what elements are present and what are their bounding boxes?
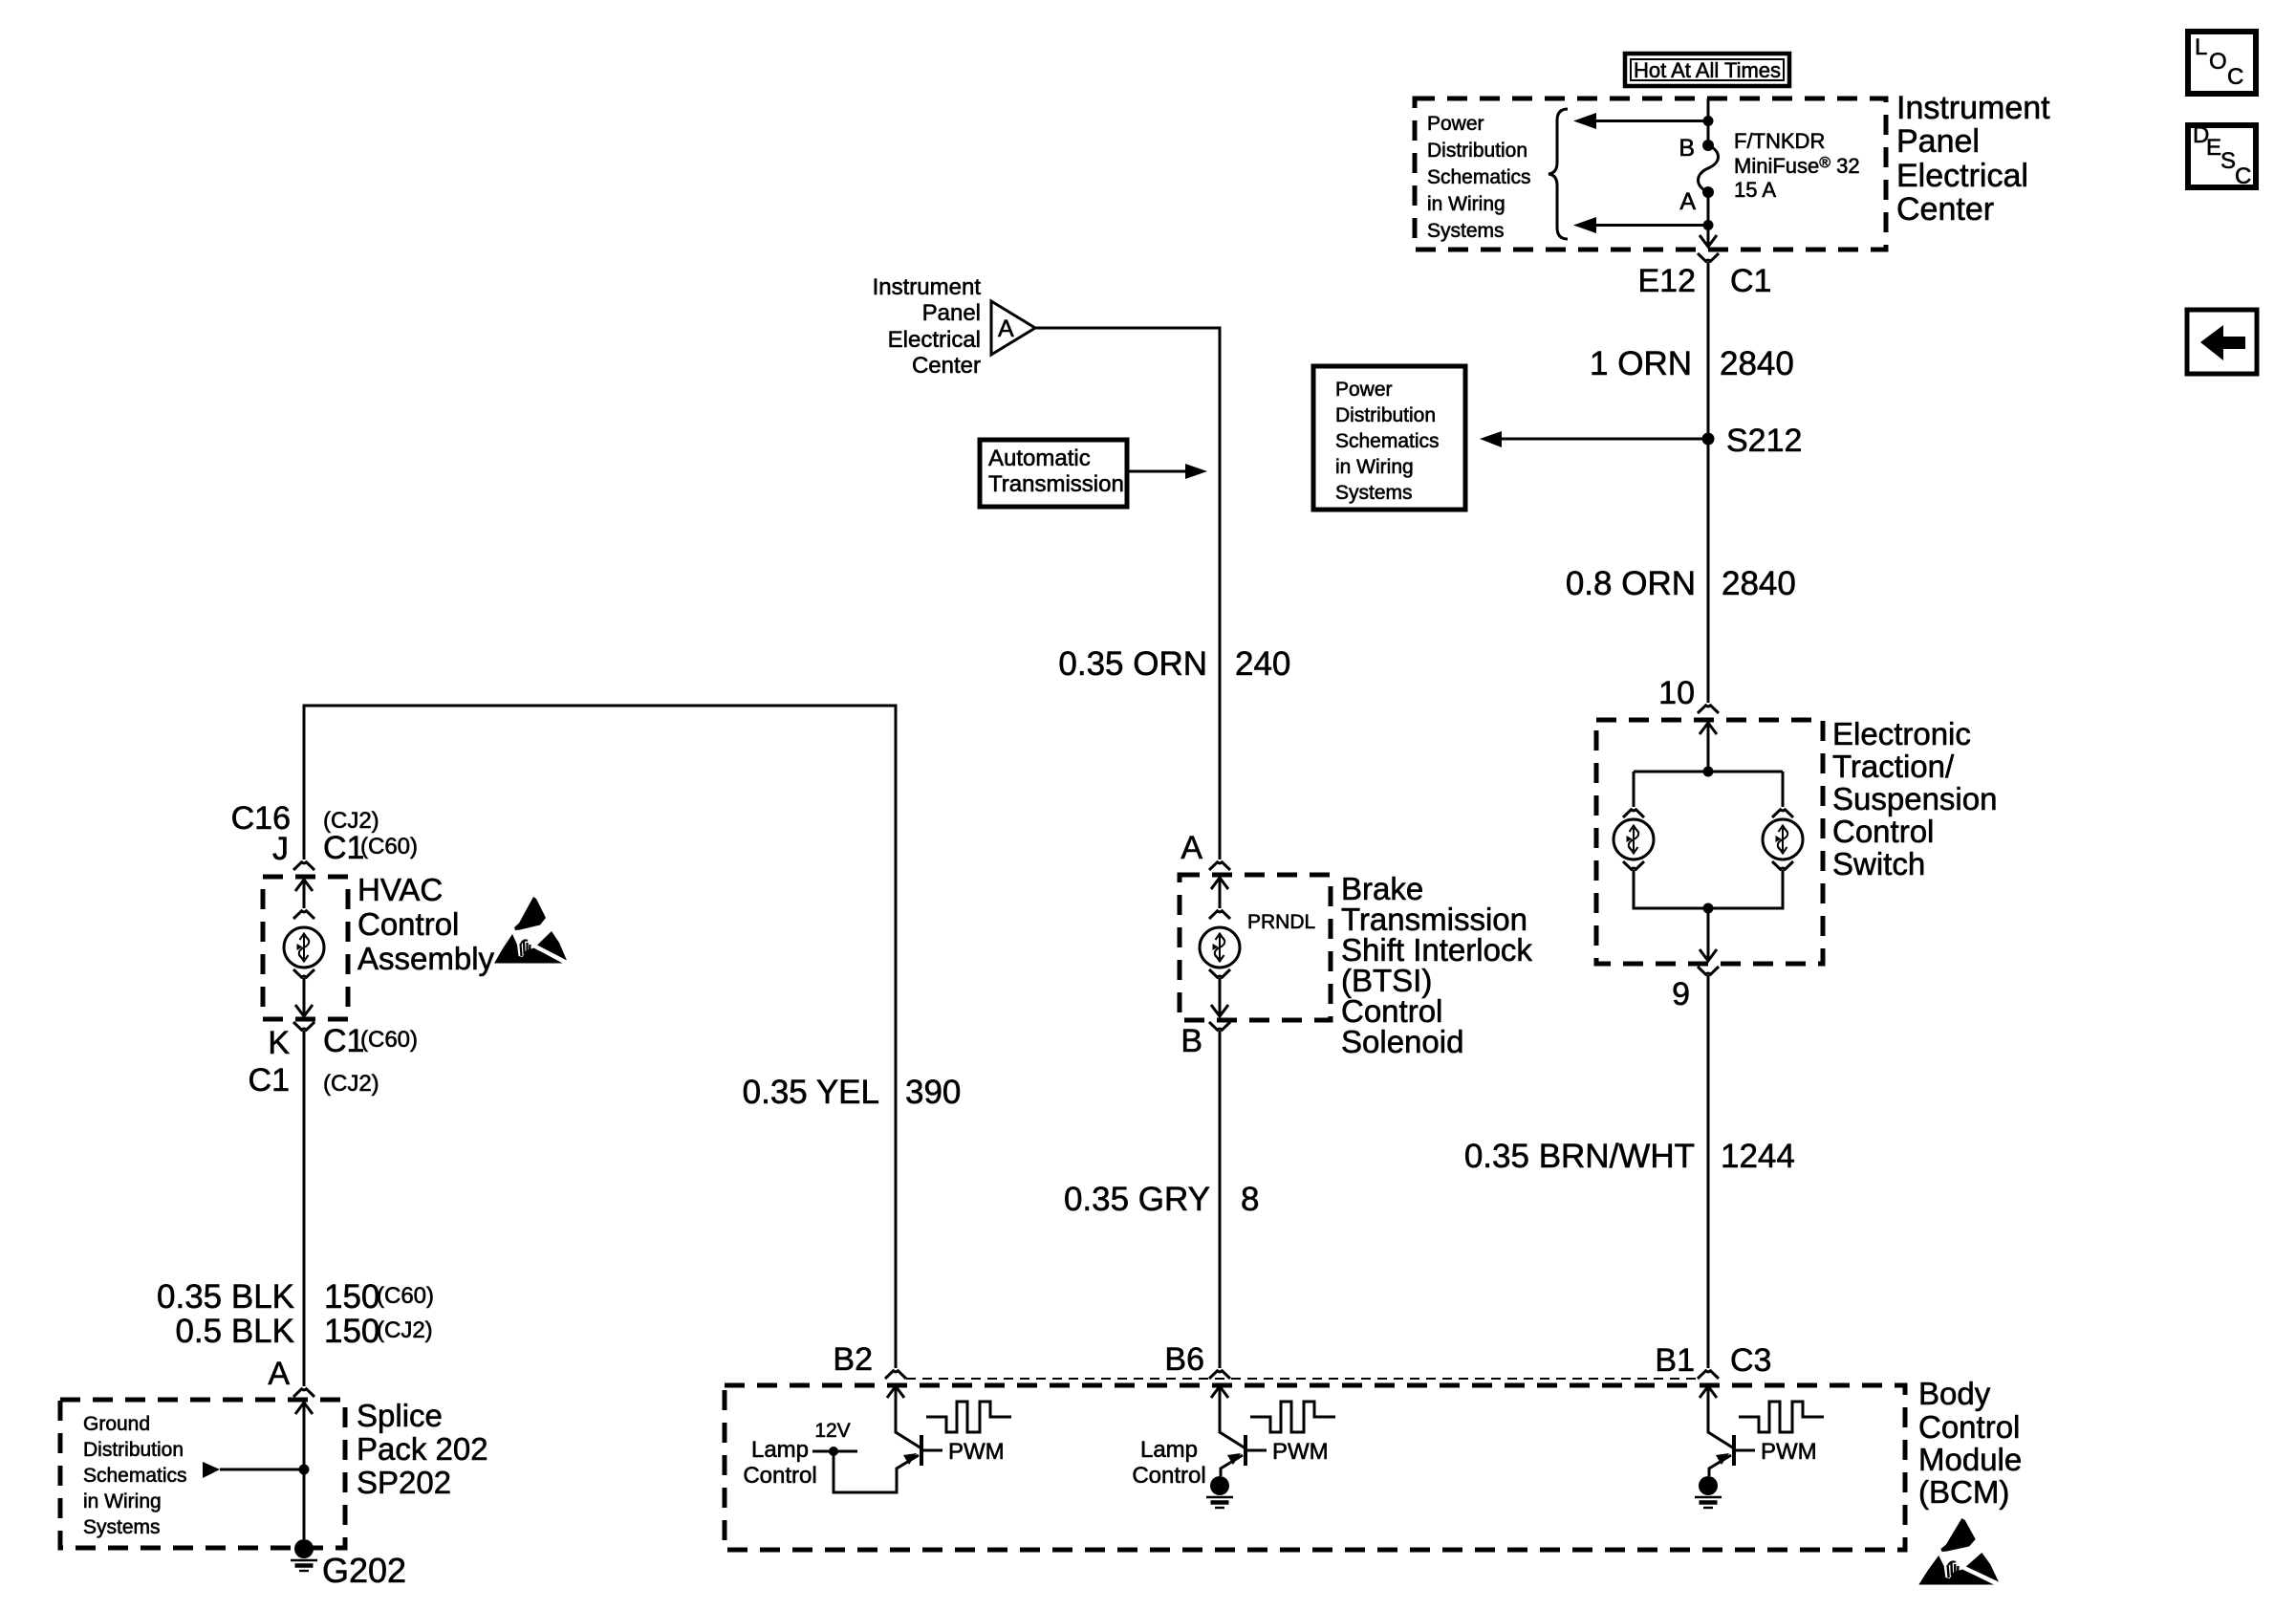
svg-text:B1: B1: [1655, 1342, 1695, 1379]
svg-text:E12: E12: [1638, 263, 1697, 299]
svg-text:(C60): (C60): [360, 834, 418, 859]
svg-text:J: J: [272, 831, 289, 867]
svg-text:HVAC: HVAC: [357, 872, 443, 907]
svg-text:Systems: Systems: [83, 1516, 161, 1538]
svg-text:0.35 BLK: 0.35 BLK: [157, 1278, 294, 1316]
entry arrow: [1700, 723, 1717, 734]
svg-text:Lamp: Lamp: [751, 1437, 809, 1463]
top horizontal wire: [304, 706, 896, 1368]
icon LOC: [2188, 32, 2256, 94]
HVAC Control Assembly dashed box: [263, 877, 348, 1019]
svg-text:Schematics: Schematics: [1335, 430, 1440, 452]
svg-text:C: C: [2227, 64, 2243, 90]
wire to power dist bottom + arrow: [1595, 224, 1708, 227]
svg-text:MiniFuse® 32: MiniFuse® 32: [1734, 154, 1860, 178]
svg-text:Pack 202: Pack 202: [357, 1431, 488, 1467]
svg-text:Body: Body: [1918, 1376, 1991, 1411]
node S212: [1702, 433, 1715, 446]
svg-text:in Wiring: in Wiring: [1335, 456, 1414, 478]
connector C3 thin dashed line: [906, 1378, 1696, 1380]
svg-text:in Wiring: in Wiring: [1427, 193, 1505, 215]
svg-text:C1: C1: [1730, 263, 1771, 299]
svg-text:Systems: Systems: [1427, 220, 1505, 242]
svg-text:C1: C1: [323, 1023, 364, 1059]
svg-text:390: 390: [905, 1074, 961, 1111]
svg-text:Electrical: Electrical: [888, 327, 981, 353]
lamp PRNDL backlight: [1200, 927, 1240, 968]
HVAC internals: [295, 880, 313, 891]
ground G202: [291, 1539, 317, 1571]
svg-text:(CJ2): (CJ2): [377, 1317, 433, 1343]
svg-text:Schematics: Schematics: [83, 1465, 187, 1487]
svg-text:SP202: SP202: [357, 1465, 451, 1500]
split junction: [1703, 767, 1714, 777]
svg-text:Automatic: Automatic: [988, 446, 1091, 471]
wire to power dist schematics + arrow: [1501, 438, 1708, 441]
svg-text:E: E: [2206, 135, 2221, 161]
svg-text:Control: Control: [357, 906, 459, 942]
svg-text:0.35 BRN/WHT: 0.35 BRN/WHT: [1464, 1138, 1695, 1175]
svg-text:10: 10: [1658, 675, 1695, 711]
svg-text:150: 150: [324, 1313, 379, 1350]
svg-text:(BCM): (BCM): [1918, 1474, 2009, 1510]
svg-text:B2: B2: [833, 1341, 873, 1378]
ESD symbol: [1918, 1518, 1999, 1585]
svg-text:F/TNKDR: F/TNKDR: [1734, 129, 1825, 153]
svg-text:1244: 1244: [1721, 1138, 1795, 1175]
splice internals: [295, 1403, 313, 1414]
svg-text:Traction/: Traction/: [1832, 749, 1955, 784]
svg-text:15 A: 15 A: [1734, 178, 1776, 202]
pin B: [1209, 1022, 1230, 1030]
svg-text:2840: 2840: [1720, 345, 1794, 382]
svg-text:PRNDL: PRNDL: [1247, 911, 1315, 933]
svg-text:A: A: [998, 315, 1014, 342]
transistor B2 driver: [743, 1386, 1011, 1492]
icon back arrow: [2187, 310, 2257, 374]
ESD symbol: [494, 897, 567, 964]
svg-text:(CJ2): (CJ2): [323, 1071, 379, 1097]
svg-text:Solenoid: Solenoid: [1341, 1024, 1463, 1059]
svg-text:C3: C3: [1730, 1342, 1771, 1379]
transistor B1 driver: [1695, 1386, 1824, 1508]
svg-text:(C60): (C60): [360, 1027, 418, 1053]
svg-text:Distribution: Distribution: [83, 1439, 184, 1461]
wire fuse out vertical: [1707, 192, 1710, 246]
svg-text:in Wiring: in Wiring: [83, 1490, 162, 1512]
svg-text:PWM: PWM: [948, 1439, 1005, 1465]
svg-text:Panel: Panel: [1896, 123, 1980, 160]
svg-text:A: A: [1679, 188, 1696, 215]
svg-text:Suspension: Suspension: [1832, 781, 1997, 816]
Instrument Panel Electrical Center dashed box: [1415, 98, 1886, 250]
svg-text:Control: Control: [1132, 1463, 1205, 1489]
ground ref arrow: [203, 1462, 220, 1478]
svg-text:Ground: Ground: [83, 1413, 150, 1435]
lamp HVAC backlight: [284, 927, 324, 968]
box Hot At All Times: [1625, 54, 1789, 86]
svg-text:PWM: PWM: [1272, 1439, 1329, 1465]
svg-text:C1: C1: [323, 830, 364, 866]
svg-text:S: S: [2220, 148, 2236, 174]
svg-text:Transmission: Transmission: [988, 471, 1124, 497]
svg-text:Instrument: Instrument: [1896, 90, 2050, 126]
label Instrument Panel Electrical Center: [1896, 90, 2050, 228]
svg-text:0.35 YEL: 0.35 YEL: [743, 1074, 879, 1111]
icon DESC: [2188, 122, 2256, 189]
svg-text:Lamp: Lamp: [1140, 1437, 1198, 1463]
svg-text:Assembly: Assembly: [357, 941, 495, 976]
brace: [1549, 109, 1568, 239]
svg-text:B6: B6: [1164, 1341, 1204, 1378]
svg-text:Systems: Systems: [1335, 482, 1413, 504]
transistor B6 driver: [1132, 1386, 1335, 1508]
svg-text:Instrument: Instrument: [873, 274, 982, 300]
svg-text:Power: Power: [1335, 379, 1393, 401]
svg-text:K: K: [268, 1025, 290, 1061]
svg-text:C: C: [2235, 163, 2251, 189]
svg-text:L: L: [2195, 34, 2207, 60]
svg-text:Control: Control: [743, 1463, 816, 1489]
BCM dashed box: [725, 1385, 1905, 1550]
BTSI dashed box: [1180, 875, 1331, 1020]
svg-text:B: B: [1180, 1023, 1202, 1059]
svg-text:Switch: Switch: [1832, 846, 1925, 881]
wire fuse feed vertical: [1707, 98, 1710, 143]
svg-text:S212: S212: [1726, 423, 1802, 459]
splice pack dashed box: [60, 1400, 345, 1548]
svg-text:A: A: [1180, 830, 1202, 866]
fuse F/TNKDR MiniFuse 32: [1699, 145, 1719, 192]
right lamp branch: [1782, 772, 1785, 807]
svg-text:2840: 2840: [1722, 565, 1796, 602]
svg-text:0.8 ORN: 0.8 ORN: [1566, 565, 1696, 602]
svg-text:Distribution: Distribution: [1335, 404, 1436, 426]
lamp right indicator: [1763, 819, 1803, 859]
svg-text:0.5 BLK: 0.5 BLK: [175, 1313, 294, 1350]
svg-text:O: O: [2209, 49, 2227, 75]
svg-text:Control: Control: [1832, 814, 1934, 849]
triangle connector A: [991, 301, 1035, 355]
wire 1 ORN 2840: [1707, 262, 1710, 703]
arrow out of box: [1700, 235, 1717, 247]
svg-text:150: 150: [324, 1278, 379, 1316]
left lamp branch: [1633, 772, 1635, 807]
svg-text:0.35 ORN: 0.35 ORN: [1058, 645, 1207, 683]
svg-text:Control: Control: [1918, 1409, 2020, 1445]
svg-text:C1: C1: [249, 1062, 290, 1099]
svg-text:Distribution: Distribution: [1427, 140, 1527, 162]
pin 9: [1698, 967, 1719, 974]
wire from triangle: [1035, 328, 1220, 859]
wire to power dist top + arrow: [1595, 120, 1708, 122]
svg-text:Center: Center: [912, 353, 981, 379]
svg-text:Module: Module: [1918, 1442, 2022, 1477]
svg-text:Panel: Panel: [922, 300, 981, 326]
wire 0.35 BRN/WHT 1244: [1707, 975, 1710, 1368]
svg-text:Electrical: Electrical: [1896, 158, 2028, 194]
BTSI internals: [1211, 878, 1228, 889]
arrow from automatic transmission: [1127, 470, 1185, 473]
svg-text:G202: G202: [322, 1551, 406, 1590]
svg-text:9: 9: [1672, 976, 1690, 1012]
svg-text:8: 8: [1241, 1181, 1259, 1218]
merge junction: [1703, 903, 1714, 914]
svg-text:0.35 GRY: 0.35 GRY: [1064, 1181, 1210, 1218]
svg-text:Center: Center: [1896, 191, 1994, 228]
svg-text:Splice: Splice: [357, 1398, 443, 1433]
svg-text:(C60): (C60): [377, 1283, 434, 1309]
note Power Distribution Schematics in Wiring Systems: [1427, 113, 1531, 242]
svg-text:1 ORN: 1 ORN: [1590, 345, 1692, 382]
junction: [1703, 116, 1714, 126]
svg-text:PWM: PWM: [1761, 1439, 1817, 1465]
svg-text:Schematics: Schematics: [1427, 166, 1531, 188]
svg-text:240: 240: [1235, 645, 1290, 683]
svg-text:B: B: [1679, 135, 1695, 162]
svg-text:Electronic: Electronic: [1832, 716, 1971, 751]
wire 0.35 BLK 150: [303, 1031, 306, 1386]
svg-text:12V: 12V: [814, 1420, 850, 1442]
wire 0.35 GRY 8: [1219, 1031, 1222, 1368]
lamp left indicator: [1614, 819, 1654, 859]
svg-text:Power: Power: [1427, 113, 1484, 135]
connector K / C1(C60) / C1 (CJ2): [293, 1022, 314, 1030]
svg-text:Hot At All Times: Hot At All Times: [1634, 58, 1781, 82]
svg-text:A: A: [268, 1356, 290, 1392]
